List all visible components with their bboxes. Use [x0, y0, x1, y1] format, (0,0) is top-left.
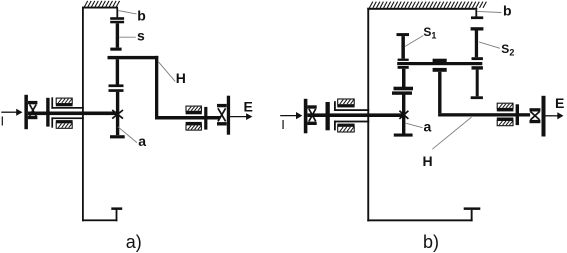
satellite s1 bottom bar meshing with a (diagram b) [394, 87, 414, 91]
svg-text:E: E [244, 98, 253, 114]
svg-text:a): a) [126, 232, 142, 252]
frame ceiling line (diagram a) [82, 7, 118, 9]
output coupling X (diagram a) [218, 108, 226, 121]
input bearing bottom block (diagram b) [337, 124, 354, 132]
satellite s2 lower hub bar (diagram b) [472, 66, 483, 69]
pointer to H (diagram a) [158, 62, 175, 82]
input bearing top bracket (diagram a) [51, 97, 83, 108]
frame bottom wire (diagram a) [82, 219, 118, 221]
pointer to a (diagram b) [406, 123, 423, 128]
svg-text:a: a [138, 133, 146, 149]
input bearing bottom block (diagram a) [56, 120, 73, 128]
pointer to s (diagram a) [119, 36, 136, 38]
input coupling left disc (diagram a) [24, 95, 28, 129]
output coupling right disc (diagram a) [227, 96, 230, 135]
output bearing top block (diagram a) [186, 106, 202, 114]
input shaft (diagram a) [28, 112, 117, 116]
X joint sun gear a to input shaft (diagram b) [399, 111, 408, 119]
satellite s top bar meshing with b (diagram a) [110, 21, 124, 24]
wire frame to ring gear b (diagram b) [475, 10, 477, 17]
carrier H bottom clamp bar (diagram b) [433, 68, 447, 72]
satellite s2 top bar (diagram b) [471, 27, 484, 30]
input coupling top arm (diagram a) [28, 101, 38, 104]
input bearing bottom bracket (diagram a) [51, 117, 83, 127]
satellite carrier shaft wire (diagram b) [397, 62, 482, 65]
output coupling top arm (diagram b) [530, 108, 541, 111]
svg-text:E: E [555, 95, 564, 111]
input coupling left disc (diagram b) [304, 99, 308, 134]
frame left wall (diagram b) [367, 8, 369, 222]
pointer to s1 (diagram b) [405, 36, 423, 47]
satellite s hub bar (diagram a) [110, 48, 121, 51]
input bearing top bracket (diagram b) [334, 101, 369, 111]
frame ceiling hatching (diagram b) [369, 2, 486, 8]
input coupling hub disc (diagram a) [46, 98, 49, 127]
satellite s2 upper shaft (diagram b) [475, 31, 478, 58]
ring gear b bar (diagram b) [471, 16, 483, 19]
ring gear b bottom bar (diagram a) [111, 207, 122, 210]
input coupling X (diagram a) [30, 105, 37, 116]
wire frame to ring gear b (diagram a) [116, 9, 118, 18]
output coupling bottom arm (diagram a) [217, 122, 227, 125]
output arrow E (diagram b) [546, 112, 564, 119]
svg-text:I: I [281, 117, 285, 132]
output coupling bottom arm (diagram b) [530, 120, 541, 123]
sun gear a top bar meshing with s1 (diagram b) [392, 91, 412, 94]
pointer to b (diagram a) [118, 11, 136, 14]
frame riser to ring gear b bottom (diagram a) [116, 210, 118, 222]
satellite s2 lower shaft (diagram b) [476, 70, 479, 97]
output shaft from carrier H (diagram a) [155, 116, 220, 120]
output coupling hub disc (diagram a) [204, 107, 207, 130]
carrier H vertical link (diagram a) [155, 56, 158, 117]
output arrow E (diagram a) [230, 113, 252, 120]
satellite s1 top bar (diagram b) [397, 33, 410, 36]
frame ceiling hatching (diagram a) [84, 1, 119, 7]
input coupling hub disc (diagram b) [326, 102, 330, 130]
satellite s bottom bar (diagram a) [109, 84, 124, 87]
svg-text:H: H [176, 70, 186, 86]
output coupling X (diagram b) [530, 112, 539, 120]
pointer to a (diagram a) [118, 127, 137, 143]
output bearing bottom block (diagram b) [497, 118, 514, 126]
output bearing top block (diagram b) [497, 103, 514, 111]
output coupling hub disc (diagram b) [516, 104, 519, 125]
pointer to s2 (diagram b) [479, 42, 500, 48]
satellite s2 bottom bar (diagram b) [471, 96, 483, 99]
input coupling X (diagram b) [309, 109, 316, 121]
ring gear b bar (diagram a) [110, 17, 124, 20]
input bearing top block (diagram b) [337, 99, 354, 107]
input coupling top arm (diagram b) [307, 105, 316, 108]
carrier H top clamp bar (diagram b) [433, 59, 447, 62]
output coupling top arm (diagram a) [217, 104, 227, 107]
satellite s1 lower shaft (diagram b) [402, 69, 406, 87]
input arrow I (diagram a) [1, 109, 22, 116]
svg-text:a: a [424, 119, 432, 135]
ring gear b bottom bar (diagram b) [464, 207, 481, 210]
frame bottom wire (diagram b) [367, 219, 472, 221]
X joint sun gear a to input shaft (diagram a) [112, 110, 123, 119]
sun gear a shaft (diagram b) [402, 95, 405, 134]
satellite s1 upper shaft (diagram b) [401, 36, 405, 59]
satellite s1 upper hub bar (diagram b) [398, 59, 409, 61]
satellite s upper shaft (diagram a) [116, 23, 119, 47]
input coupling bottom arm (diagram b) [307, 122, 316, 125]
satellite s2 upper hub bar (diagram b) [472, 57, 483, 60]
output coupling right disc (diagram b) [542, 96, 546, 137]
frame ceiling line (diagram b) [367, 8, 477, 10]
frame left wall (diagram a) [82, 7, 84, 222]
sun gear a bottom bar (diagram b) [394, 134, 413, 137]
input bearing top block (diagram a) [56, 98, 73, 106]
svg-text:b: b [137, 7, 146, 23]
svg-text:s: s [137, 27, 145, 43]
svg-text:b): b) [423, 232, 439, 252]
satellite s1 lower hub bar (diagram b) [398, 66, 409, 69]
svg-text:b: b [503, 2, 512, 18]
sun gear a top bar meshing with s (diagram a) [109, 89, 124, 92]
satellite s lower shaft (diagram a) [116, 59, 119, 84]
input coupling bottom arm (diagram a) [28, 116, 38, 119]
pointer to b (diagram b) [477, 11, 501, 12]
sun gear a bottom bar (diagram a) [110, 135, 125, 138]
pointer to H (diagram b) [432, 117, 471, 149]
svg-text:H: H [423, 153, 433, 169]
carrier H arm (diagram a) [108, 56, 159, 59]
input arrow I (diagram b) [280, 112, 302, 119]
output shaft from carrier H (diagram b) [438, 113, 530, 116]
svg-text:I: I [1, 114, 5, 129]
output bearing bottom block (diagram a) [186, 122, 202, 130]
sun gear a shaft (diagram a) [116, 92, 119, 135]
carrier H vertical link (diagram b) [438, 72, 441, 114]
input bearing bottom bracket (diagram b) [334, 121, 369, 131]
input shaft (diagram b) [307, 113, 402, 117]
frame riser to ring gear b bottom (diagram b) [471, 210, 473, 222]
